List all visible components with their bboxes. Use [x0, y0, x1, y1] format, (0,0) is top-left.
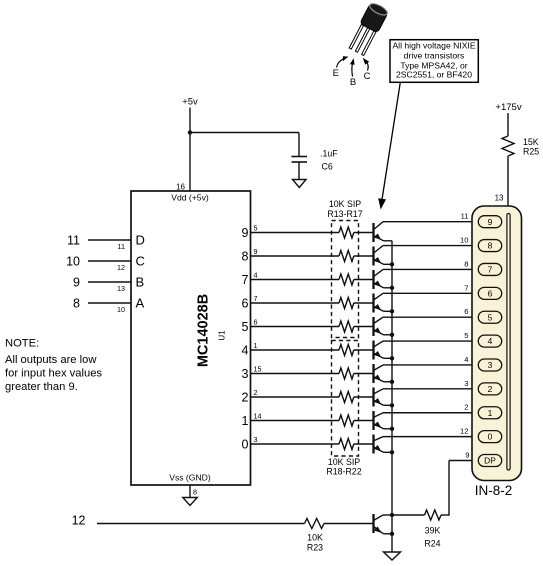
label B with arrow	[350, 58, 356, 88]
svg-text:10K SIP: 10K SIP	[328, 457, 360, 467]
resistor network R13-R17 label	[327, 199, 362, 219]
svg-text:11: 11	[67, 233, 80, 247]
wire R18 to Q6 base	[354, 349, 374, 351]
transistor Q9	[374, 411, 384, 430]
node output 3 (pin 15) wire to R19	[242, 365, 339, 381]
junction emitter Q3	[390, 286, 394, 290]
wire R24 to nixie DP (pin 9)	[441, 451, 480, 516]
svg-text:15: 15	[254, 365, 262, 374]
wire Q1 collector to nixie cathode 9 (pin 11)	[383, 212, 480, 222]
wire Q10 emitter to rail	[384, 451, 393, 453]
svg-text:7: 7	[464, 283, 468, 292]
nixie cathode DP	[478, 455, 501, 467]
svg-text:13: 13	[117, 284, 125, 293]
transistor Q7	[374, 364, 384, 383]
svg-text:10K SIP: 10K SIP	[329, 199, 361, 209]
resistor R17	[339, 321, 354, 332]
svg-text:16: 16	[176, 183, 185, 192]
svg-text:11: 11	[118, 242, 125, 251]
svg-text:8: 8	[464, 259, 468, 268]
svg-text:9: 9	[73, 275, 80, 289]
svg-text:for input hex values: for input hex values	[5, 368, 102, 380]
svg-text:9: 9	[254, 247, 258, 256]
svg-text:R18-R22: R18-R22	[326, 467, 361, 477]
node input 8 wire to pin 10 (A)	[73, 296, 144, 314]
nixie cathode 6	[478, 287, 501, 299]
resistor R18	[339, 345, 354, 356]
wire Q3 emitter to rail	[384, 287, 393, 289]
capacitor C6	[292, 133, 339, 180]
label E with arrow	[333, 56, 349, 79]
svg-text:4: 4	[488, 336, 493, 346]
node output 6 (pin 7) wire to R16	[242, 294, 339, 310]
node input 11 wire to pin 11 (D)	[67, 233, 145, 251]
wire R23 to Q11 base	[324, 523, 374, 525]
nixie cathode 2	[478, 383, 501, 395]
node output 0 (pin 3) wire to R22	[242, 435, 339, 451]
svg-text:DP: DP	[484, 456, 496, 466]
junction Q11 emitter	[390, 532, 394, 536]
svg-text:2: 2	[488, 384, 493, 394]
svg-text:5: 5	[242, 320, 249, 334]
transistor Q8	[374, 388, 384, 407]
svg-text:4: 4	[254, 271, 258, 280]
svg-text:4: 4	[242, 343, 249, 357]
svg-text:9: 9	[242, 226, 249, 240]
svg-text:6: 6	[242, 296, 249, 310]
transistor Q3	[374, 269, 384, 289]
svg-text:5: 5	[488, 312, 493, 322]
svg-text:10: 10	[66, 254, 80, 268]
nixie tube IN-8-2 body	[472, 206, 522, 481]
svg-text:7: 7	[488, 265, 493, 275]
resistor R13	[339, 227, 354, 238]
wire Q8 collector to nixie cathode 2 (pin 3)	[383, 379, 480, 389]
wire Vss pin 8	[190, 485, 197, 498]
node input 12 wire to R23	[72, 514, 305, 528]
wire Q4 collector to nixie cathode 6 (pin 7)	[383, 283, 480, 293]
nixie cathode 8	[478, 240, 501, 252]
nixie cathode 5	[478, 311, 501, 323]
svg-text:10K: 10K	[307, 533, 323, 543]
svg-text:12: 12	[72, 514, 86, 528]
junction emitter Q7	[390, 380, 394, 384]
resistor R16	[339, 298, 354, 309]
svg-text:6: 6	[488, 288, 493, 298]
svg-text:1: 1	[488, 408, 493, 418]
node output 8 (pin 9) wire to R14	[242, 247, 339, 263]
svg-text:8: 8	[73, 296, 80, 310]
wire R17 to Q5 base	[354, 326, 374, 328]
node input 9 wire to pin 13 (B)	[73, 275, 144, 293]
svg-text:R23: R23	[307, 543, 323, 553]
label C with arrow	[363, 58, 371, 82]
svg-text:5: 5	[254, 224, 258, 233]
wire Q2 collector to nixie cathode 8 (pin 10)	[383, 236, 480, 246]
node input 10 wire to pin 12 (C)	[66, 254, 145, 272]
wire +5v to C6	[190, 132, 299, 134]
wire rail to R24	[392, 514, 425, 516]
svg-text:C6: C6	[322, 162, 333, 172]
svg-text:7: 7	[242, 273, 249, 287]
svg-text:C: C	[364, 71, 371, 82]
op-amp U1 MC14028B IC body	[131, 191, 251, 485]
resistor network R18-R22 dashed outline	[332, 341, 359, 457]
svg-text:12: 12	[117, 263, 125, 272]
svg-text:11: 11	[461, 212, 469, 221]
svg-text:+5v: +5v	[182, 97, 198, 108]
resistor R23	[305, 519, 325, 553]
svg-text:9: 9	[465, 451, 469, 460]
wire Q3 collector to nixie cathode 7 (pin 8)	[383, 259, 480, 269]
svg-text:39K: 39K	[425, 526, 441, 536]
svg-text:R24: R24	[424, 539, 440, 549]
svg-text:+175v: +175v	[495, 102, 521, 113]
wire common emitter rail	[391, 241, 393, 552]
svg-text:14: 14	[254, 412, 262, 421]
transistor Q2	[374, 246, 384, 266]
svg-text:D: D	[136, 233, 145, 248]
svg-text:3: 3	[488, 360, 493, 370]
wire Q7 emitter to rail	[384, 381, 393, 383]
svg-text:10: 10	[460, 236, 468, 245]
transistor Q6	[374, 341, 384, 360]
svg-text:U1: U1	[218, 330, 227, 341]
wire Q8 emitter to rail	[384, 404, 393, 406]
wire R21 to Q9 base	[354, 420, 374, 422]
svg-text:B: B	[136, 275, 145, 290]
resistor R21	[339, 415, 354, 426]
wire Q6 emitter to rail	[384, 357, 393, 359]
svg-text:3: 3	[464, 379, 468, 388]
ground Vss	[183, 498, 198, 506]
wire Q9 collector to nixie cathode 1 (pin 2)	[383, 403, 480, 413]
nixie anode slot (pin 13)	[507, 214, 510, 471]
ground below C6	[293, 180, 307, 188]
svg-text:2: 2	[242, 390, 249, 404]
svg-text:8: 8	[193, 488, 197, 497]
svg-text:All high voltage NIXIE: All high voltage NIXIE	[392, 40, 475, 50]
wire R20 to Q8 base	[354, 396, 374, 398]
svg-text:9: 9	[488, 217, 493, 227]
node output 2 (pin 2) wire to R20	[242, 388, 339, 404]
svg-text:0: 0	[242, 437, 249, 451]
svg-text:.1uF: .1uF	[320, 149, 338, 159]
transistor Q10	[374, 435, 384, 454]
svg-text:MC14028B: MC14028B	[196, 294, 212, 367]
nixie cathode 4	[478, 335, 501, 347]
wire Q5 collector to nixie cathode 5 (pin 6)	[383, 307, 480, 317]
wire Q5 emitter to rail	[384, 334, 393, 336]
node output 5 (pin 6) wire to R17	[242, 318, 339, 334]
nixie cathode 1	[478, 407, 501, 419]
svg-text:0: 0	[488, 432, 493, 442]
node output 7 (pin 4) wire to R15	[242, 271, 339, 287]
svg-text:R25: R25	[523, 146, 539, 156]
wire R16 to Q4 base	[354, 302, 374, 304]
transistor Q5	[374, 317, 384, 336]
svg-text:6: 6	[464, 307, 468, 316]
wire R25 to nixie anode pin 13	[495, 156, 508, 214]
svg-text:NOTE:: NOTE:	[5, 338, 39, 350]
svg-text:drive transistors: drive transistors	[404, 50, 465, 60]
svg-text:2: 2	[254, 388, 258, 397]
wire Q9 emitter to rail	[384, 428, 393, 430]
power +5v	[182, 97, 198, 192]
wire R15 to Q3 base	[354, 279, 374, 281]
note box: transistor types	[390, 40, 478, 83]
TO-92 transistor package illustration	[348, 1, 390, 56]
svg-text:2SC2551, or BF420: 2SC2551, or BF420	[396, 70, 472, 80]
nixie cathode 3	[478, 359, 501, 371]
resistor network R13-R17 dashed outline	[332, 221, 359, 338]
node output 1 (pin 14) wire to R21	[242, 412, 339, 428]
nixie cathode 9	[478, 216, 501, 228]
svg-text:3: 3	[242, 367, 249, 381]
resistor R25	[502, 136, 539, 156]
svg-text:C: C	[136, 254, 145, 269]
junction emitter Q9	[390, 427, 394, 431]
svg-text:10: 10	[117, 305, 125, 314]
resistor R24	[424, 510, 441, 549]
svg-text:7: 7	[254, 294, 258, 303]
nixie cathode 0	[478, 431, 501, 443]
junction emitter Q2	[390, 262, 394, 266]
resistor R19	[339, 368, 354, 379]
wire R22 to Q10 base	[354, 443, 374, 445]
transistor Q4	[374, 293, 384, 312]
junction Q11 collector / R24	[390, 513, 394, 517]
note text: outputs low	[5, 338, 102, 394]
wire R13 to Q1 base	[354, 232, 374, 234]
wire Q2 emitter to rail	[384, 263, 393, 265]
ground emitter rail	[384, 552, 401, 560]
node output 4 (pin 1) wire to R18	[242, 341, 339, 357]
svg-text:E: E	[333, 68, 339, 79]
svg-text:1: 1	[254, 341, 258, 350]
node output 9 (pin 5) wire to R13	[242, 224, 339, 240]
wire Q4 emitter to rail	[384, 310, 393, 312]
resistor R14	[339, 251, 354, 262]
svg-text:A: A	[136, 296, 145, 311]
wire R19 to Q7 base	[354, 373, 374, 375]
junction emitter Q6	[390, 356, 394, 360]
resistor network R18-R22 label	[326, 457, 361, 477]
junction emitter Q5	[390, 333, 394, 337]
wire R14 to Q2 base	[354, 255, 374, 257]
svg-text:3: 3	[254, 435, 258, 444]
svg-text:R13-R17: R13-R17	[327, 209, 362, 219]
svg-text:13: 13	[495, 194, 504, 203]
svg-text:6: 6	[254, 318, 258, 327]
junction emitter Q10	[390, 450, 394, 454]
wire Q10 collector to nixie cathode 0 (pin 12)	[383, 427, 480, 437]
wire Q6 collector to nixie cathode 4 (pin 5)	[383, 331, 480, 341]
resistor R22	[339, 439, 354, 450]
svg-text:12: 12	[460, 427, 468, 436]
svg-text:IN-8-2: IN-8-2	[475, 483, 513, 498]
junction emitter Q4	[390, 309, 394, 313]
nixie cathode 7	[478, 263, 501, 275]
transistor Q1	[374, 222, 384, 242]
callout arrow from note box to transistors	[378, 82, 400, 209]
svg-text:Vss (GND): Vss (GND)	[169, 473, 211, 483]
resistor R15	[339, 274, 354, 285]
svg-text:2: 2	[464, 403, 468, 412]
svg-text:All outputs are low: All outputs are low	[5, 354, 97, 366]
svg-text:Vdd (+5v): Vdd (+5v)	[171, 193, 209, 203]
wire Q7 collector to nixie cathode 3 (pin 4)	[383, 355, 480, 365]
junction emitter Q8	[390, 403, 394, 407]
svg-text:greater than 9.: greater than 9.	[5, 381, 78, 393]
svg-text:5: 5	[464, 331, 468, 340]
svg-text:B: B	[350, 77, 356, 88]
resistor R20	[339, 392, 354, 403]
svg-text:1: 1	[242, 414, 249, 428]
svg-text:8: 8	[242, 249, 249, 263]
junction +5v tee	[188, 130, 192, 134]
svg-text:8: 8	[488, 241, 493, 251]
power +175v	[495, 102, 521, 136]
svg-text:4: 4	[464, 355, 468, 364]
transistor Q11	[374, 514, 393, 534]
wire Q1 emitter to rail	[384, 240, 393, 242]
